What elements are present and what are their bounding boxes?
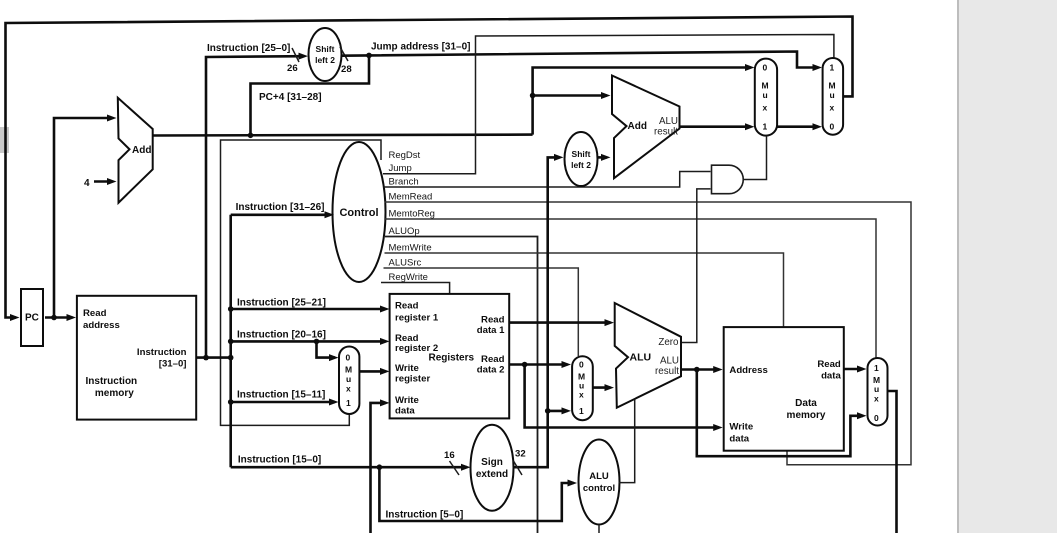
wire: RegDst control to register destination mux [221, 140, 382, 425]
svg-text:Jump: Jump [389, 163, 412, 174]
svg-text:MemtoReg: MemtoReg [389, 209, 435, 220]
svg-text:1: 1 [763, 121, 768, 131]
wire: memtoreg mux output down (write back, cropped) [888, 391, 897, 533]
svg-text:Branch: Branch [389, 177, 419, 188]
alu main ALU [615, 303, 681, 408]
svg-text:data 1: data 1 [477, 325, 505, 336]
svg-text:Add: Add [628, 121, 647, 132]
svg-text:PC+4 [31–28]: PC+4 [31–28] [259, 92, 322, 103]
wire: pcsrc mux out to jump mux 0 [777, 125, 818, 128]
wire: PC up to Add (PC+4) [54, 118, 113, 318]
wire: sign extend output up to shift left 2 (branch) [514, 157, 560, 467]
svg-text:[31–0]: [31–0] [159, 359, 187, 370]
wire: instruction [20-16] to read register 2 [231, 340, 386, 343]
registers [390, 294, 510, 419]
svg-text:0: 0 [346, 353, 351, 363]
pc register PC [21, 289, 43, 346]
wire: read data 2 to alusrc mux 0 [509, 363, 567, 366]
wire: instruction [5-0] to ALU control [379, 467, 573, 521]
wire: instruction [31-26] to control [231, 214, 330, 217]
svg-text:26: 26 [287, 63, 298, 74]
svg-text:0: 0 [579, 360, 584, 370]
svg-text:M: M [829, 80, 836, 90]
svg-text:x: x [874, 394, 879, 404]
wire: alusrc mux out to ALU [593, 386, 611, 389]
svg-text:Instruction [25–0]: Instruction [25–0] [207, 43, 290, 54]
svg-text:u: u [874, 384, 879, 394]
svg-text:Sign: Sign [481, 457, 503, 468]
svg-text:Instruction [15–11]: Instruction [15–11] [237, 390, 325, 401]
svg-text:Shift: Shift [572, 149, 591, 159]
wire: and gate output to pcsrc mux select [743, 136, 766, 180]
svg-text:data: data [395, 406, 415, 417]
wire: ALUOp control down off page [385, 237, 538, 533]
svg-text:ALU: ALU [630, 352, 652, 364]
slash 28 [340, 47, 348, 61]
svg-text:4: 4 [84, 178, 90, 189]
wire: read data to memtoreg mux 1 [844, 368, 863, 371]
slash 26 [292, 48, 299, 62]
wire: ALUOp into alu control from below (cropped) [598, 525, 600, 533]
wire: ALU result branch under data memory to memtoreg mux 0 [697, 370, 863, 457]
wire: read data 1 to ALU [509, 321, 610, 324]
svg-text:Read: Read [83, 308, 107, 319]
wire: PC+4 main line to branch area [153, 133, 533, 136]
svg-text:Instruction [25–21]: Instruction [25–21] [237, 298, 326, 309]
svg-text:data: data [729, 434, 749, 445]
svg-text:left 2: left 2 [571, 160, 591, 170]
svg-text:ALUSrc: ALUSrc [389, 258, 422, 269]
svg-text:1: 1 [874, 363, 879, 373]
svg-text:data: data [821, 371, 841, 382]
svg-text:Read: Read [817, 359, 841, 370]
wire: instruction [25-21] to read register 1 [231, 308, 386, 311]
svg-text:data 2: data 2 [477, 365, 505, 376]
svg-text:register 1: register 1 [395, 313, 439, 324]
svg-text:u: u [763, 90, 768, 100]
wire: branch target to pcsrc mux 1 [680, 125, 751, 128]
wire: Jump control to jump mux select [383, 35, 834, 174]
svg-text:M: M [345, 365, 352, 375]
wire: zero flag to and gate [681, 189, 711, 343]
svg-text:x: x [763, 103, 768, 113]
svg-text:Add: Add [132, 145, 151, 156]
svg-text:ALU: ALU [660, 356, 679, 367]
wire: write back data into write data port [371, 403, 386, 533]
svg-text:1: 1 [579, 406, 584, 416]
svg-text:ALUOp: ALUOp [389, 226, 420, 237]
wire: instruction [15-0] to sign extend [231, 466, 467, 469]
svg-text:address: address [83, 320, 120, 331]
svg-text:MemRead: MemRead [389, 192, 433, 203]
mux: ALUSrc (0/1) [572, 356, 593, 420]
svg-text:Instruction [15–0]: Instruction [15–0] [238, 455, 321, 466]
svg-text:Instruction: Instruction [137, 347, 187, 358]
node: jump address junction [366, 53, 372, 59]
node: PC+4 branch junction [248, 133, 254, 139]
mux: PCSrc (0/1) [755, 59, 777, 136]
shifter Shift left 2 (jump) [309, 28, 342, 81]
svg-text:ALU: ALU [659, 116, 678, 127]
svg-text:Instruction [5–0]: Instruction [5–0] [386, 510, 464, 521]
svg-text:RegWrite: RegWrite [389, 272, 428, 283]
grey sidebar [958, 0, 1057, 533]
svg-text:x: x [579, 390, 584, 400]
svg-text:MemWrite: MemWrite [389, 243, 432, 254]
wire: instruction [20-16] branch to regdst mux 0 [317, 341, 336, 357]
svg-text:Read: Read [395, 301, 419, 312]
svg-text:Read: Read [481, 354, 505, 365]
svg-text:0: 0 [830, 121, 835, 131]
wire: read data 2 branch to data memory write data [525, 365, 719, 428]
left edge grey scan artifact [0, 127, 9, 153]
svg-text:RegDst: RegDst [389, 150, 421, 161]
svg-text:control: control [583, 483, 615, 494]
shifter Shift left 2 (branch) [565, 132, 598, 186]
svg-text:Registers: Registers [429, 353, 475, 364]
and gate (branch and zero) [712, 165, 744, 194]
svg-text:Write: Write [729, 422, 753, 433]
mux: register destination (0/1) [339, 347, 359, 415]
svg-text:1: 1 [830, 63, 835, 73]
svg-text:Read: Read [481, 315, 505, 326]
svg-text:PC: PC [25, 313, 39, 324]
wire: shift left 2 to branch adder [598, 156, 608, 159]
svg-text:1: 1 [346, 398, 351, 408]
svg-text:Address: Address [729, 365, 767, 376]
svg-text:result: result [655, 366, 679, 377]
svg-text:M: M [762, 80, 769, 90]
wire: alu control to ALU select [619, 400, 635, 483]
wire: ALUSrc control to alusrc mux select [384, 268, 579, 356]
wire: PC+4 [31-28] up to jump address [251, 55, 370, 135]
adder Add (PC+4) [118, 98, 153, 203]
svg-text:u: u [830, 90, 835, 100]
node: instruction [5-0] junction [377, 464, 383, 470]
wire: sign extended immediate to alusrc mux 1 [548, 410, 568, 413]
svg-text:x: x [346, 384, 351, 394]
svg-text:32: 32 [515, 449, 526, 460]
wire: Branch control to AND gate [384, 172, 711, 188]
svg-text:Control: Control [339, 207, 378, 219]
wire: MemtoReg control to memtoreg mux select [385, 219, 876, 358]
svg-text:Jump address [31–0]: Jump address [31–0] [371, 42, 471, 53]
instruction memory [77, 296, 196, 420]
svg-text:ALU: ALU [589, 471, 609, 482]
mux: Jump (1/0) [823, 58, 844, 135]
svg-text:28: 28 [341, 64, 352, 75]
svg-text:Instruction: Instruction [86, 376, 138, 387]
wire: regdst mux out to write register [359, 370, 385, 373]
svg-text:16: 16 [444, 450, 455, 461]
wire: PC to instruction memory read address [45, 316, 73, 319]
wire: ALU result to data memory address [681, 368, 719, 371]
data memory [724, 327, 844, 451]
wire: jump address line to jump mux input 1 [342, 52, 819, 68]
wire: PC+4 up to branch adder and pcsrc mux 0 [533, 68, 751, 135]
wire: instruction [15-11] to regdst mux 1 [231, 401, 335, 404]
wire: MemRead control to data memory bottom [385, 202, 912, 465]
svg-text:Write: Write [395, 395, 419, 406]
svg-text:Zero: Zero [658, 337, 679, 348]
svg-text:Instruction [20–16]: Instruction [20–16] [237, 330, 326, 341]
svg-text:x: x [830, 103, 835, 113]
svg-text:register: register [395, 374, 430, 385]
control unit Control [333, 142, 386, 282]
svg-text:left 2: left 2 [315, 55, 335, 65]
svg-text:memory: memory [787, 410, 826, 421]
svg-text:u: u [346, 374, 351, 384]
svg-text:Shift: Shift [316, 44, 335, 54]
svg-text:extend: extend [476, 469, 508, 480]
mux: MemtoReg (1/0) [868, 358, 888, 426]
svg-text:result: result [654, 127, 678, 138]
wire: instruction distribution vertical [229, 215, 232, 467]
wire: instruction [25-0] vertical and jump line to shift left 2 [206, 56, 304, 357]
svg-text:memory: memory [95, 388, 134, 399]
alu control unit [579, 440, 620, 525]
wire: PC feedback loop (jump mux output to PC input) [6, 17, 853, 318]
svg-text:0: 0 [763, 63, 768, 73]
svg-text:Instruction [31–26]: Instruction [31–26] [236, 202, 325, 213]
adder Add (branch target) [612, 76, 680, 179]
node: PC output junction [51, 315, 57, 321]
svg-text:0: 0 [874, 413, 879, 423]
wire: MemWrite control to data memory top [385, 253, 784, 327]
wire: RegWrite control to registers [381, 283, 450, 294]
wire: instruction bus out of instruction memory [196, 356, 231, 359]
svg-text:Write: Write [395, 363, 419, 374]
svg-text:Data: Data [795, 398, 817, 409]
